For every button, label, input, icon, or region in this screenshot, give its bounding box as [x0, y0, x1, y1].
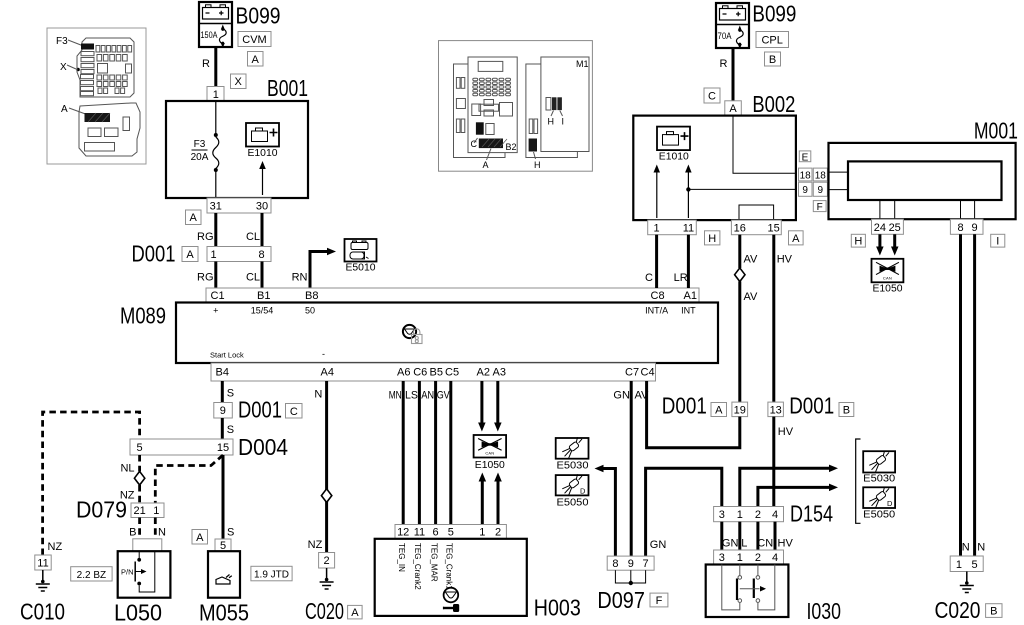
svg-text:B001: B001 — [267, 75, 308, 101]
svg-text:LS: LS — [405, 390, 418, 402]
svg-text:8: 8 — [258, 249, 264, 261]
svg-text:11: 11 — [414, 527, 425, 539]
svg-text:9: 9 — [802, 185, 808, 196]
svg-text:B002: B002 — [752, 91, 795, 117]
svg-text:E1010: E1010 — [659, 152, 689, 163]
label A — [182, 247, 198, 262]
svg-text:+: + — [213, 306, 218, 316]
svg-text:I030: I030 — [807, 598, 842, 624]
wire L (D154 1 to I030 1) — [738, 522, 741, 550]
wire H003 1 to E1050 — [481, 481, 484, 525]
svg-text:H: H — [534, 160, 541, 170]
immobiliser code icon in M089 — [403, 325, 416, 338]
svg-text:C020: C020 — [305, 598, 344, 624]
wire N (M001 8 to C020 B) — [959, 234, 962, 556]
svg-text:B8: B8 — [305, 290, 318, 302]
svg-text:E5010: E5010 — [346, 263, 376, 274]
splice on NL wire — [134, 471, 144, 485]
svg-text:A4: A4 — [321, 367, 334, 379]
connector D001 pins 1 8 — [207, 247, 271, 262]
svg-text:CPL: CPL — [761, 35, 782, 47]
svg-text:15: 15 — [767, 222, 779, 234]
svg-text:2: 2 — [755, 509, 761, 521]
wire S (B4 to D001 C) — [221, 381, 224, 403]
label B — [839, 403, 854, 417]
inertia switch L050 — [118, 551, 171, 598]
svg-text:D079: D079 — [76, 497, 127, 523]
wire S (D004 15 to M055) — [222, 455, 225, 539]
svg-text:F3: F3 — [194, 139, 206, 150]
svg-text:GV: GV — [437, 390, 451, 402]
svg-text:D004: D004 — [238, 434, 288, 460]
svg-text:D001: D001 — [662, 393, 707, 419]
CAN junction E1050 (right) — [872, 259, 904, 283]
svg-text:E1010: E1010 — [248, 148, 278, 159]
connector F label — [813, 201, 826, 212]
fusebox B002 body — [633, 116, 796, 221]
connector D001 A pin 19 — [732, 402, 748, 417]
splice on N wire — [321, 489, 331, 503]
svg-text:TEG_IN: TEG_IN — [397, 543, 406, 572]
svg-text:A: A — [729, 103, 737, 115]
svg-text:15/54: 15/54 — [251, 306, 274, 316]
svg-text:MN: MN — [389, 390, 402, 402]
svg-text:A: A — [252, 54, 260, 66]
wire from D097 8 to E5030 (left) — [603, 469, 615, 557]
svg-text:M055: M055 — [199, 600, 249, 625]
wire AV (B002 16 down) — [738, 235, 741, 268]
wire CN (D154 2 to E5050 right) — [758, 487, 829, 506]
wire A3 to CAN node E1050 — [496, 381, 499, 423]
connector D001 B pin 13 — [768, 402, 784, 417]
svg-text:HV: HV — [778, 426, 794, 438]
svg-text:AN: AN — [421, 390, 434, 402]
connector D004 pins 5 15 — [130, 439, 233, 455]
svg-text:CL: CL — [246, 231, 260, 243]
joined-pins bracket under D097 — [615, 570, 645, 583]
svg-text:-: - — [322, 349, 325, 359]
svg-text:X: X — [60, 62, 67, 73]
svg-text:Start Lock: Start Lock — [210, 351, 244, 360]
label 1.9 JTD — [251, 566, 292, 581]
svg-text:E1050: E1050 — [475, 460, 505, 471]
svg-text:C1: C1 — [211, 290, 225, 302]
svg-text:NZ: NZ — [48, 541, 63, 553]
flasher reference E5030 (left) — [556, 438, 589, 459]
svg-text:A: A — [792, 233, 800, 245]
label A (M055 connector) — [192, 530, 208, 545]
connector C020 A pin 2 — [319, 553, 335, 569]
svg-text:INT: INT — [681, 306, 696, 316]
svg-text:C7: C7 — [625, 367, 639, 379]
svg-text:A: A — [196, 532, 204, 544]
ECU M089 bottom pin row B4 A4 A6 C6 B5 C5 A2 A3 C7 C4 — [211, 363, 656, 381]
wire GN (D097 7 to D154 3) — [646, 468, 722, 556]
wire M001 24 to E1050 — [878, 234, 881, 247]
svg-text:TEG_Crank1: TEG_Crank1 — [445, 543, 454, 590]
svg-text:7: 7 — [643, 558, 649, 570]
wire C (B002 1 to M089 C8) — [655, 235, 658, 288]
inner module of M001 — [848, 161, 1002, 200]
svg-text:AV: AV — [744, 254, 759, 266]
svg-text:E5030: E5030 — [557, 460, 589, 471]
svg-text:2: 2 — [755, 552, 761, 564]
svg-text:A: A — [190, 212, 198, 224]
svg-text:HV: HV — [777, 254, 793, 266]
svg-text:M001: M001 — [974, 118, 1018, 144]
svg-text:CAN: CAN — [485, 451, 494, 456]
wire RG (D001 to M089 C1) — [214, 262, 217, 289]
svg-text:70A: 70A — [718, 31, 732, 41]
svg-text:50: 50 — [305, 306, 315, 316]
label CPL — [756, 32, 789, 48]
label C — [704, 88, 720, 103]
svg-text:2.2 BZ: 2.2 BZ — [77, 570, 106, 581]
lines inner module to pins — [880, 200, 975, 219]
svg-text:B2: B2 — [506, 142, 517, 152]
svg-text:R: R — [202, 58, 210, 70]
svg-text:1: 1 — [479, 527, 485, 539]
svg-text:5: 5 — [137, 442, 143, 454]
wire N (D079 to L050) — [154, 518, 157, 540]
svg-text:C: C — [471, 139, 478, 149]
label CVM — [238, 32, 271, 47]
brake pedal switch I030 pin row 3 1 2 4 — [714, 550, 784, 565]
label C — [286, 404, 303, 419]
svg-text:D: D — [887, 499, 893, 508]
svg-text:9: 9 — [972, 222, 978, 234]
svg-text:A3: A3 — [493, 367, 506, 379]
svg-text:5: 5 — [448, 527, 454, 539]
svg-text:H: H — [854, 236, 862, 248]
svg-text:CN: CN — [757, 537, 773, 549]
svg-text:B: B — [843, 405, 850, 417]
svg-text:C010: C010 — [20, 599, 65, 625]
svg-text:15: 15 — [217, 442, 229, 454]
label A — [711, 403, 727, 417]
flasher reference E5050 (left) — [556, 475, 589, 495]
svg-text:19: 19 — [734, 404, 746, 416]
battery B099 (right) — [716, 3, 749, 48]
svg-text:H003: H003 — [534, 595, 581, 621]
battery B099 (left) — [199, 2, 232, 47]
connector D154 pins 3 1 2 4 — [714, 507, 784, 522]
svg-text:8: 8 — [957, 222, 963, 234]
wire HV (pin 13 to D154 4) — [772, 417, 775, 507]
ECU M089 top pin row C1 B1 B8 C8 A1 — [206, 288, 699, 303]
svg-text:18: 18 — [800, 171, 812, 182]
wire RN (M089 B8 to E5010) — [310, 252, 327, 289]
svg-text:1: 1 — [737, 509, 743, 521]
wire CL (30 to D001) — [261, 213, 264, 247]
svg-text:18: 18 — [815, 171, 827, 182]
arrow to E1010 from pin 1 — [656, 172, 658, 218]
svg-text:D097: D097 — [597, 587, 645, 613]
svg-text:C6: C6 — [413, 367, 427, 379]
label B — [765, 52, 781, 66]
wire GN (M089 C7 to D097 9) — [630, 381, 633, 556]
wire AV (pin 19 to M089 C4) — [647, 381, 740, 448]
inertia switch L050 connector tab — [133, 539, 162, 551]
svg-text:4: 4 — [772, 552, 778, 564]
label A — [248, 52, 264, 67]
svg-text:R: R — [720, 58, 728, 70]
svg-text:F3: F3 — [56, 36, 68, 47]
wire AN (B5 to H003 6) — [434, 381, 437, 525]
pins 24 25 of M001 — [872, 219, 904, 234]
connector D097 pins 8 9 7 — [607, 556, 654, 570]
svg-text:TEG_Crank2: TEG_Crank2 — [413, 543, 422, 590]
svg-text:25: 25 — [889, 222, 901, 234]
svg-text:12: 12 — [397, 527, 409, 539]
label H — [705, 231, 720, 245]
ground at C020 B — [966, 572, 968, 585]
svg-text:9: 9 — [628, 558, 634, 570]
svg-text:A: A — [186, 249, 194, 261]
svg-text:B4: B4 — [216, 367, 229, 379]
svg-text:A2: A2 — [477, 367, 490, 379]
label X — [231, 74, 247, 89]
svg-text:1: 1 — [654, 222, 660, 234]
svg-text:4: 4 — [772, 509, 778, 521]
battery feed E1010 icon in B002 — [657, 127, 690, 151]
connector C020 B pins 1 5 — [950, 556, 983, 572]
CAN junction E1050 — [474, 435, 507, 458]
wire RG (31 to D001) — [214, 213, 217, 247]
splice on AV wire — [735, 268, 745, 282]
svg-text:D001: D001 — [238, 397, 282, 423]
pins 16 15 of B002 — [731, 220, 781, 235]
svg-text:1.9 JTD: 1.9 JTD — [254, 570, 289, 581]
svg-text:1: 1 — [737, 552, 743, 564]
wire HV (B002 15 down) — [772, 235, 775, 402]
wire GN (D154 3 to I030 3) — [720, 522, 723, 550]
wire R (battery to B002 A) — [732, 48, 735, 101]
fusebox B001 — [166, 101, 308, 198]
svg-text:1: 1 — [210, 249, 216, 261]
label F — [650, 593, 668, 607]
svg-text:D154: D154 — [790, 501, 833, 527]
svg-text:AV: AV — [634, 390, 649, 402]
flasher reference E5030 (right) — [863, 451, 895, 472]
svg-text:21: 21 — [133, 505, 145, 517]
arrow to E1010 from pin 11 — [687, 172, 689, 218]
pins 31 30 of B001 — [207, 198, 271, 213]
svg-text:RG: RG — [197, 231, 214, 243]
svg-text:D: D — [580, 487, 586, 496]
wire N (M001 9 to C020 B) — [973, 234, 976, 556]
connector E pins 18 9 — [799, 168, 813, 181]
svg-text:24: 24 — [874, 222, 886, 234]
svg-text:C5: C5 — [445, 367, 459, 379]
svg-text:GN: GN — [613, 390, 630, 402]
label A — [789, 231, 804, 245]
label I — [991, 234, 1005, 247]
wire H003 2 to E1050 — [497, 481, 500, 525]
svg-text:E: E — [802, 152, 809, 163]
brake pedal switch I030 body — [706, 565, 789, 618]
wire L (D154 1 to E5030 right) — [740, 468, 829, 506]
pins 1 11 of B002 — [648, 220, 697, 235]
line pin A to pin 18 — [733, 116, 796, 174]
svg-text:L: L — [741, 537, 747, 549]
svg-text:HV: HV — [778, 537, 794, 549]
svg-text:A1: A1 — [684, 290, 697, 302]
svg-text:N: N — [962, 542, 970, 554]
svg-text:M089: M089 — [120, 303, 166, 329]
svg-text:H: H — [708, 233, 716, 245]
svg-text:B1: B1 — [257, 290, 270, 302]
svg-text:A: A — [715, 405, 723, 417]
svg-text:2: 2 — [495, 527, 501, 539]
svg-text:C4: C4 — [641, 367, 655, 379]
svg-text:2: 2 — [324, 555, 330, 567]
label A — [348, 605, 363, 619]
wire S (pin 9 to D004) — [221, 418, 224, 439]
svg-text:P/N: P/N — [121, 568, 134, 577]
steering-key icon in H003 — [444, 588, 459, 603]
svg-text:I: I — [562, 117, 565, 127]
svg-text:30: 30 — [256, 201, 268, 213]
svg-text:3: 3 — [719, 552, 725, 564]
starter M055 pin 5 — [215, 539, 231, 551]
wire LR (B002 11 to M089 A1) — [687, 235, 690, 288]
wire A2 to CAN node E1050 — [480, 381, 483, 423]
svg-text:S: S — [227, 527, 234, 539]
wire R (battery to B001 pin 1) — [214, 47, 217, 87]
svg-text:20A: 20A — [191, 152, 209, 163]
svg-text:GN: GN — [650, 539, 667, 551]
svg-text:1: 1 — [153, 505, 159, 517]
ground at C010 — [42, 570, 44, 583]
junction dot and line to pin 9 — [686, 187, 690, 191]
svg-text:1: 1 — [956, 559, 962, 571]
svg-text:F: F — [817, 202, 823, 213]
svg-text:150A: 150A — [201, 30, 218, 40]
arrow to E1010 — [262, 169, 264, 195]
svg-text:C: C — [708, 91, 716, 103]
svg-text:AV: AV — [744, 291, 759, 303]
svg-text:CVM: CVM — [242, 34, 266, 46]
svg-text:A: A — [483, 160, 489, 170]
wire MN (A6 to H003 12) — [402, 381, 405, 525]
wire B (D079 to L050) — [138, 518, 141, 540]
bracket for E5030/E5050 (right) — [856, 439, 861, 523]
svg-text:11: 11 — [683, 222, 694, 234]
label B — [986, 604, 1002, 618]
svg-text:11: 11 — [37, 558, 48, 570]
svg-text:C: C — [645, 272, 653, 284]
fuse F3 20A inside B001 — [215, 101, 217, 134]
dashed wire NZ from C010 to D004 pin 5 — [43, 412, 140, 555]
ECU M089 body (engine control node) — [176, 303, 718, 364]
label H — [851, 234, 865, 247]
wire N (A4 to C020 A) — [325, 381, 328, 553]
ground at C020 A — [326, 568, 328, 581]
wire CN (D154 2 to I030 2) — [756, 522, 759, 550]
wire GV (C5 to H003 5) — [449, 381, 452, 525]
svg-text:9: 9 — [220, 405, 226, 417]
svg-text:GN: GN — [722, 537, 739, 549]
svg-text:B: B — [769, 54, 776, 66]
body computer M001 body — [829, 143, 1016, 219]
connector D079 pins 21 1 — [131, 503, 164, 518]
svg-text:A: A — [351, 607, 359, 619]
svg-text:3: 3 — [719, 509, 725, 521]
svg-text:13: 13 — [770, 404, 782, 416]
svg-text:B: B — [129, 527, 136, 539]
svg-text:1: 1 — [213, 89, 219, 101]
pin A of B002 — [725, 101, 742, 116]
svg-text:N: N — [314, 389, 322, 401]
svg-text:S: S — [227, 424, 234, 436]
svg-text:NL: NL — [120, 463, 134, 475]
svg-text:M1: M1 — [576, 59, 589, 69]
lines from connector to inner module — [829, 172, 849, 190]
svg-text:B: B — [990, 606, 997, 618]
svg-text:C: C — [290, 406, 298, 418]
label A — [186, 210, 202, 225]
wire LS (C6 to H003 11) — [418, 381, 421, 525]
wire M001 25 to E1050 — [893, 234, 896, 247]
inset dashboard location diagram — [439, 41, 593, 172]
svg-text:A: A — [61, 104, 68, 115]
flasher reference E5050 (right) — [863, 487, 895, 508]
svg-text:RG: RG — [197, 272, 214, 284]
label 2.2 BZ — [71, 567, 112, 581]
dashed wire (D004 15 to D079 1) — [155, 455, 223, 503]
switch contacts inside I030 — [722, 565, 740, 610]
svg-text:5: 5 — [972, 559, 978, 571]
svg-text:6: 6 — [433, 527, 439, 539]
svg-text:A6: A6 — [397, 367, 410, 379]
pins 8 9 of M001 — [950, 219, 983, 234]
svg-text:N: N — [158, 527, 166, 539]
wire NL with splice (D004 5 to D079 21) — [138, 455, 141, 471]
pin 1 of B001 — [207, 87, 224, 102]
battery feed E1010 icon in B001 — [246, 123, 279, 147]
svg-text:D001: D001 — [789, 393, 834, 419]
small internal rect in B002 — [739, 205, 774, 220]
svg-text:B099: B099 — [236, 2, 281, 28]
svg-text:B099: B099 — [752, 1, 796, 27]
instrument cluster H003 pin row 12 11 6 5 1 2 — [395, 525, 506, 539]
svg-text:I: I — [996, 236, 999, 248]
services E5010 icon — [345, 239, 377, 262]
svg-text:E5030: E5030 — [863, 473, 895, 484]
svg-text:RN: RN — [292, 272, 308, 284]
connector E label — [799, 151, 811, 162]
svg-text:TEG_MAR: TEG_MAR — [429, 543, 438, 582]
svg-text:31: 31 — [210, 201, 222, 213]
svg-text:X: X — [235, 76, 243, 88]
svg-text:F: F — [656, 595, 663, 607]
svg-text:H: H — [548, 117, 555, 127]
inset fuse-box location diagram — [47, 28, 146, 164]
svg-text:S: S — [227, 388, 234, 400]
svg-text:E5050: E5050 — [557, 497, 589, 508]
instrument cluster H003 body — [375, 539, 527, 616]
svg-text:LR: LR — [674, 272, 688, 284]
connector D001 C pin 9 — [214, 403, 233, 419]
svg-text:C8: C8 — [651, 290, 665, 302]
svg-text:E5050: E5050 — [863, 510, 895, 521]
svg-text:NZ: NZ — [308, 539, 323, 551]
svg-text:8: 8 — [612, 558, 618, 570]
svg-text:9: 9 — [818, 185, 824, 196]
wire HV (D154 4 to I030 4) — [774, 522, 777, 550]
svg-text:N: N — [977, 542, 985, 554]
